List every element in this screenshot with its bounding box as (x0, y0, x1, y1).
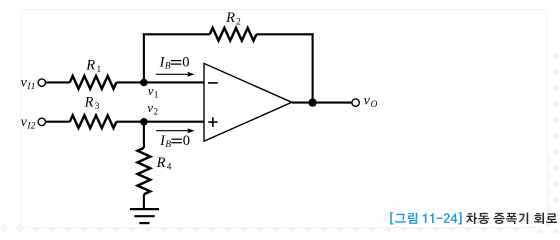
caption [그림 11-24] (390, 212, 462, 224)
arrow IB upper (156, 72, 195, 77)
arrow IB lower (156, 128, 195, 133)
svg-text:1: 1 (31, 82, 36, 92)
wire vI2 to R3 (45, 121, 70, 123)
label vI1 (21, 76, 36, 93)
svg-text:2: 2 (31, 121, 36, 131)
ground (130, 209, 159, 223)
svg-text:1: 1 (97, 65, 102, 75)
label R4 (156, 155, 172, 173)
wire vI1 to R1 (45, 81, 70, 83)
op-amp minus pin marker (208, 82, 218, 84)
wire node v2 down to R4 (143, 121, 145, 148)
label v1 (148, 83, 159, 100)
terminal vI2 (38, 118, 45, 125)
resistor R3 (70, 115, 117, 128)
resistor R4 (138, 148, 151, 194)
wire R1 to op-amp inverting input (116, 81, 204, 83)
op-amp U1 (204, 63, 292, 141)
svg-text:R: R (156, 155, 166, 171)
label R2 (225, 10, 241, 28)
svg-text:R: R (85, 57, 95, 73)
resistor R1 (70, 76, 117, 89)
label vO (364, 93, 378, 110)
svg-text:1: 1 (154, 90, 159, 100)
label vI2 (21, 115, 36, 132)
svg-text:v: v (364, 93, 371, 108)
node v1 junction dot (140, 79, 148, 87)
label IB=0 upper (159, 54, 190, 71)
svg-text:v: v (147, 100, 153, 115)
wire feedback top left (143, 33, 210, 35)
terminal vI1 (38, 79, 45, 86)
svg-text:v: v (148, 83, 154, 98)
svg-text:2: 2 (154, 107, 159, 117)
svg-text:4: 4 (167, 162, 172, 172)
terminal vO (352, 99, 359, 106)
label v2 (147, 100, 158, 117)
svg-text:R: R (225, 10, 235, 26)
label R3 (84, 95, 100, 113)
svg-text:0: 0 (182, 54, 189, 70)
label R1 (85, 57, 101, 75)
caption 차동 증폭기 회로 (466, 213, 557, 224)
op-amp plus pin marker (208, 117, 217, 127)
wire op-amp output (292, 102, 353, 104)
svg-text:B: B (165, 140, 171, 150)
svg-text:3: 3 (95, 102, 100, 112)
svg-text:O: O (371, 100, 378, 110)
svg-text:R: R (84, 95, 94, 111)
wire feedback top right (256, 33, 313, 35)
resistor R2 (210, 28, 257, 41)
label IB=0 lower (159, 133, 190, 150)
wire feedback vertical to output node (312, 33, 314, 102)
wire R4 to ground (143, 194, 145, 209)
wire feedback vertical from node v1 (143, 33, 145, 83)
svg-text:0: 0 (183, 133, 190, 149)
svg-text:2: 2 (236, 17, 241, 27)
output node junction dot (308, 98, 316, 106)
node v2 junction dot (140, 118, 148, 126)
wire R3 to op-amp non-inverting input (116, 121, 204, 123)
svg-text:B: B (165, 62, 171, 72)
